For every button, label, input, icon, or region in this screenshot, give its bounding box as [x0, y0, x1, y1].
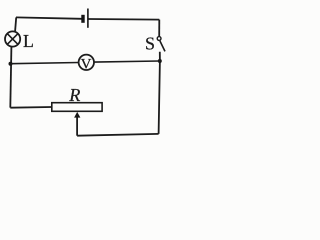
wire rheostat slider stem	[76, 117, 78, 136]
rheostat R body (rectangle)	[52, 103, 102, 112]
switch S lever (open blade)	[160, 41, 165, 52]
wire left vertical upper (top corner down to lamp)	[15, 17, 16, 31]
switch S upper terminal circle	[157, 37, 161, 41]
battery cell BT1 negative plate (short thick bar)	[81, 15, 84, 23]
wire top-left horizontal (battery negative to lamp corner)	[16, 17, 82, 18]
wire left vertical lower (lamp down to bottom-left corner)	[10, 47, 11, 108]
wire right vertical upper (top corner down to switch)	[158, 20, 160, 37]
wire bottom-left horizontal (left corner to rheostat left terminal)	[10, 106, 52, 109]
junction node left (voltmeter tap)	[9, 62, 13, 66]
battery cell BT1 positive plate (long thin bar)	[87, 9, 89, 28]
voltmeter V meter circle	[79, 55, 94, 70]
wire voltmeter branch right segment	[94, 61, 160, 62]
junction node right (voltmeter tap)	[158, 59, 162, 63]
rheostat slider arrowhead	[74, 112, 80, 118]
lamp L cross stroke 2	[7, 34, 18, 45]
wire top-right horizontal (battery positive to switch corner)	[88, 18, 159, 21]
lamp L bulb circle	[5, 31, 20, 46]
svg-text:V: V	[81, 57, 92, 73]
wire bottom horizontal (bottom corner to rheostat slider)	[77, 134, 159, 136]
svg-text:R: R	[68, 85, 80, 105]
svg-text:S: S	[145, 34, 155, 54]
wire right vertical lower (switch to bottom corner)	[159, 52, 160, 134]
svg-text:L: L	[23, 31, 34, 51]
wire voltmeter branch left segment	[11, 63, 79, 64]
lamp L cross stroke 1	[7, 34, 18, 45]
